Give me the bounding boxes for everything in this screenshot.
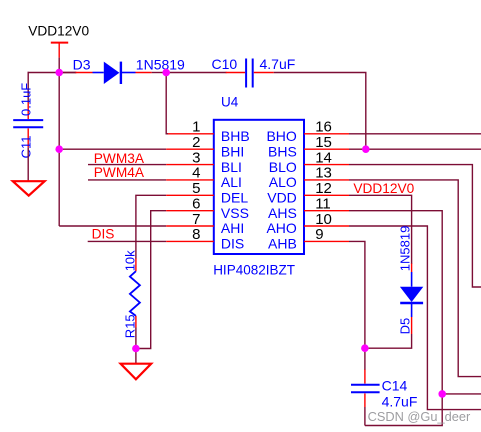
- wire C11 to ground: [27, 147, 29, 181]
- svg-text:C11: C11: [18, 136, 33, 159]
- svg-text:AHB: AHB: [268, 236, 297, 252]
- svg-text:AHI: AHI: [221, 220, 244, 236]
- pin 14 BLO: [269, 149, 349, 174]
- ground (below R15): [121, 364, 152, 380]
- wire DIS (pin 8): [88, 240, 167, 242]
- node junction dot D3 cathode: [162, 69, 170, 77]
- svg-text:BHI: BHI: [221, 143, 244, 159]
- wire C11 branch vertical: [27, 72, 29, 103]
- resistor R15 10k: [122, 250, 140, 338]
- pin 4 ALI: [166, 165, 242, 190]
- svg-text:VDD: VDD: [267, 190, 297, 206]
- power symbol VDD12V0: [28, 24, 89, 58]
- wire DEL (pin 5) to R15: [136, 195, 166, 258]
- svg-text:4.7uF: 4.7uF: [260, 56, 296, 72]
- wire node A to D3 anode: [59, 72, 76, 74]
- wire junction to right edge: [442, 393, 481, 395]
- capacitor C11: [13, 83, 43, 159]
- svg-text:DIS: DIS: [221, 236, 244, 252]
- svg-text:ALO: ALO: [269, 174, 297, 190]
- node junction dot AHS net: [438, 390, 446, 398]
- wire pin12 right, down to D5: [349, 195, 412, 264]
- svg-text:PWM4A: PWM4A: [94, 165, 145, 180]
- svg-text:VDD12V0: VDD12V0: [28, 24, 89, 39]
- svg-text:D5: D5: [398, 318, 413, 335]
- pin 8 DIS: [166, 226, 244, 251]
- wire R15 bottom to ground node: [135, 328, 137, 349]
- wire pin13 right, down, exit right: [349, 180, 481, 377]
- wire C14 node down: [364, 348, 366, 370]
- pin 6 VSS: [166, 196, 249, 221]
- svg-text:BHS: BHS: [268, 143, 297, 159]
- svg-text:1N5819: 1N5819: [136, 57, 185, 73]
- ground (left, below C11): [13, 181, 45, 195]
- svg-text:AHO: AHO: [266, 220, 296, 236]
- svg-text:U4: U4: [221, 94, 239, 109]
- pin 5 DEL: [166, 180, 248, 205]
- wire D5 cathode to C14 node: [365, 334, 412, 348]
- wire ground stub: [135, 349, 137, 364]
- svg-text:DIS: DIS: [92, 227, 115, 242]
- wire pin16 to right edge: [349, 133, 481, 135]
- node junction dot R15 ground: [132, 345, 140, 353]
- diode D5 1N5819: [398, 226, 424, 335]
- node junction dot BHS/C10: [362, 145, 370, 153]
- svg-text:BHB: BHB: [221, 128, 250, 144]
- svg-text:9: 9: [315, 226, 323, 243]
- wire C10 right to corner, down to pin15: [274, 73, 366, 150]
- wire node B to C10: [166, 72, 226, 74]
- node junction dot top-left VDD: [55, 69, 63, 77]
- capacitor C14: [351, 370, 417, 410]
- svg-text:0.1uF: 0.1uF: [18, 83, 33, 116]
- svg-text:4.7uF: 4.7uF: [382, 393, 418, 409]
- node junction dot BHI row: [55, 145, 63, 153]
- pin 10 AHO: [266, 211, 349, 236]
- pin 2 BHI: [166, 134, 244, 159]
- wire pin14 right, down, exit right: [349, 165, 481, 287]
- pin 7 AHI: [166, 211, 244, 236]
- wire BHI row (pin 2): [59, 148, 166, 150]
- svg-text:VSS: VSS: [221, 205, 249, 221]
- wire PWM4A (pin 4): [88, 179, 166, 181]
- pin 12 VDD: [267, 180, 349, 205]
- svg-text:BHO: BHO: [266, 128, 296, 144]
- pin 11 AHS: [268, 196, 349, 221]
- pin 3 BLI: [166, 149, 242, 174]
- wire pin11 right, down to bottom corner: [349, 211, 442, 426]
- wire VSS (pin 6) down: [135, 211, 166, 349]
- svg-text:CSDN @Gu_deer: CSDN @Gu_deer: [368, 409, 471, 424]
- svg-text:C14: C14: [382, 377, 408, 393]
- wire pin9 right, down to C14 node: [349, 241, 365, 348]
- svg-text:BLO: BLO: [269, 159, 297, 175]
- pin 13 ALO: [269, 165, 349, 190]
- wire PWM3A (pin 3): [88, 164, 166, 166]
- svg-text:D3: D3: [73, 57, 91, 73]
- svg-text:R15: R15: [122, 314, 137, 338]
- pin 16 BHO: [266, 119, 349, 144]
- svg-text:10k: 10k: [122, 250, 137, 271]
- pin 1 BHB: [166, 119, 249, 144]
- svg-text:BLI: BLI: [221, 159, 242, 175]
- wire node B down to pin 1: [166, 73, 168, 134]
- IC U4 HIP4082IBZT: [213, 94, 304, 277]
- svg-text:HIP4082IBZT: HIP4082IBZT: [213, 263, 295, 278]
- wire C14 bottom to pin11 line: [364, 407, 366, 426]
- svg-text:8: 8: [192, 226, 200, 243]
- svg-text:VDD12V0: VDD12V0: [353, 181, 414, 196]
- wire left vertical bus (node A down to AHI row): [58, 73, 60, 227]
- node junction dot C14 top: [361, 344, 369, 352]
- pin 15 BHS: [268, 134, 349, 159]
- svg-text:ALI: ALI: [221, 174, 242, 190]
- wire pin15 to right edge: [349, 148, 481, 150]
- wire pin10 right, down, exit right: [349, 226, 481, 410]
- svg-text:AHS: AHS: [268, 205, 297, 221]
- svg-text:1N5819: 1N5819: [398, 226, 413, 272]
- wire power stem to node A: [58, 58, 60, 73]
- wire top-left horizontal: [28, 72, 77, 74]
- capacitor C10: [212, 56, 296, 88]
- pin 9 AHB: [268, 226, 349, 251]
- svg-text:DEL: DEL: [221, 190, 248, 206]
- wire D3 cathode to node B: [152, 72, 167, 74]
- svg-text:C10: C10: [212, 56, 238, 72]
- diode D3 1N5819: [73, 57, 185, 84]
- wire AHI row (pin 7): [59, 225, 166, 227]
